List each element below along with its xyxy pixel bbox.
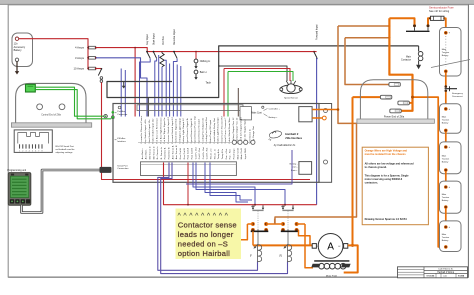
- svg-text:Batt Lt: Batt Lt: [200, 71, 207, 74]
- wire blue coil R drive: [196, 163, 285, 205]
- contactor R moving contact: [282, 209, 293, 211]
- hairball bottom connector: [141, 162, 237, 176]
- svg-text:Forward Switch Input 12: Forward Switch Input 12: [171, 116, 174, 143]
- wire orange contactor interconnects: [247, 223, 253, 225]
- wire orange field left feed: [305, 224, 313, 268]
- lamp Oil/Eng Lt: [195, 51, 197, 53]
- wire blue forward input down to contactors: [316, 59, 318, 205]
- wire red 4A fuse output: [96, 48, 147, 52]
- svg-text:to chassis ground.: to chassis ground.: [365, 166, 388, 169]
- main contactor contacts: [406, 30, 430, 32]
- svg-text:Reverse Switch Input 12: Reverse Switch Input 12: [167, 116, 170, 143]
- contactor R coil terminals: [284, 204, 286, 206]
- svg-text:Serial Comm Transmit T: Serial Comm Transmit T: [224, 117, 227, 144]
- svg-text:Coil F- Ret: Coil F- Ret: [198, 148, 201, 160]
- hairball top connector: [137, 105, 243, 111]
- svg-text:Orange Wires are High Voltage: Orange Wires are High Voltage and: [365, 148, 408, 152]
- svg-text:Pot Box: Pot Box: [162, 35, 165, 45]
- svg-text:Auxiliary Output Two 12: Auxiliary Output Two 12: [236, 117, 239, 143]
- wire orange battery1 to disconnect: [445, 73, 447, 86]
- svg-text:Fan + Out: Fan + Out: [225, 148, 228, 159]
- traction battery 2: [440, 104, 462, 134]
- svg-text:Tachometer Signal Out: Tachometer Signal Out: [175, 118, 178, 143]
- svg-text:Traction: Traction: [442, 236, 450, 239]
- svg-text:Battery: Battery: [442, 160, 450, 163]
- svg-text:Water Pump OK Input: Water Pump OK Input: [209, 120, 212, 144]
- pot box base plate: [11, 123, 91, 127]
- svg-text:Main Cont: Main Cont: [251, 111, 262, 114]
- pot box holes: [37, 104, 43, 110]
- svg-text:Controller +: Controller +: [269, 107, 281, 110]
- contactor F moving contact: [252, 209, 263, 211]
- svg-text:Main: Main: [406, 57, 412, 59]
- svg-text:Battery: Battery: [442, 121, 450, 124]
- svg-text:leads no longer: leads no longer: [178, 230, 234, 239]
- lamp Batt Lt: [194, 70, 198, 74]
- svg-text:1: 1: [19, 150, 20, 152]
- svg-text:Tach: Tach: [206, 81, 212, 85]
- pot box green connector: [26, 84, 36, 92]
- svg-text:Battery Light Output 12: Battery Light Output 12: [182, 118, 185, 144]
- svg-text:Pot Box Wiper Signal In: Pot Box Wiper Signal In: [163, 117, 166, 144]
- svg-text:RS-232 Serial Port: RS-232 Serial Port: [56, 145, 75, 148]
- traction battery 4: [440, 181, 462, 213]
- svg-text:Field Drv A: Field Drv A: [164, 147, 167, 159]
- wire green speed sensor: [228, 72, 293, 82]
- terminal B- of Zilla: [380, 95, 391, 99]
- svg-text:Battery +: Battery +: [269, 116, 279, 119]
- svg-text:Coil R+ Out: Coil R+ Out: [202, 147, 205, 160]
- svg-text:Arm Sense A: Arm Sense A: [171, 145, 174, 159]
- wire purple coil R return: [161, 163, 288, 274]
- wire dark into hairball right: [237, 88, 239, 117]
- svg-text:Battery: Battery: [442, 199, 450, 202]
- wire orange charger line A: [338, 25, 389, 27]
- wire blue coil F drive: [193, 163, 255, 205]
- wire black into hairball: [147, 98, 149, 117]
- svg-text:KSI-Aux: KSI-Aux: [117, 137, 126, 140]
- wire orange B- return from battery string: [413, 97, 446, 247]
- svg-text:Key Input: Key Input: [146, 34, 149, 45]
- svg-text:Coil R- Ret: Coil R- Ret: [206, 147, 209, 159]
- svg-text:Speed Sensor Signal A: Speed Sensor Signal A: [186, 118, 189, 143]
- terminal M1 of Zilla: [390, 109, 401, 113]
- svg-text:B- Sense In: B- Sense In: [161, 146, 163, 159]
- svg-text:option Hairball: option Hairball: [178, 249, 230, 258]
- wire orange motor armature feed: [353, 96, 381, 98]
- svg-text:Coil F+ Out: Coil F+ Out: [194, 147, 197, 159]
- wire orange main cont battery+ stub: [312, 117, 322, 119]
- svg-text:S1.B4: S1.B4: [458, 275, 465, 278]
- svg-text:Battery -: Battery -: [290, 162, 298, 165]
- svg-text:Pot Box High Reference: Pot Box High Reference: [159, 117, 162, 144]
- contactor power studs F: [251, 222, 254, 225]
- RS-232 serial jack: [14, 130, 52, 153]
- wire orange M2 terminal stub: [409, 102, 413, 104]
- svg-text:Oil Engine Light Output: Oil Engine Light Output: [178, 118, 181, 144]
- hairball logo: [269, 131, 281, 138]
- svg-text:Pot Box: Pot Box: [117, 110, 126, 113]
- accessory battery: [12, 33, 33, 67]
- svg-text:07.03.04: 07.03.04: [427, 275, 436, 278]
- svg-text:Fwd Coil A: Fwd Coil A: [187, 147, 190, 159]
- svg-text:F: F: [250, 254, 252, 258]
- Zilla power end housing: [360, 80, 427, 119]
- svg-text:Speed Sensor Ground: Speed Sensor Ground: [198, 119, 201, 144]
- wire orange main cont to charger line: [312, 109, 338, 111]
- contactor R actuator coil: [285, 244, 288, 247]
- wire orange battery2 to battery3: [445, 132, 447, 146]
- svg-text:Connection: Connection: [117, 167, 129, 170]
- programming cable plug: [100, 167, 112, 173]
- svg-text:8: 8: [41, 150, 42, 152]
- svg-text:Programming unit: Programming unit: [7, 169, 26, 172]
- svg-text:Start Input: Start Input: [152, 33, 155, 45]
- svg-text:7: 7: [38, 150, 39, 152]
- svg-text:Temp B In: Temp B In: [222, 148, 224, 159]
- emergency disconnect switch: [445, 85, 448, 88]
- svg-text:4: 4: [29, 150, 30, 152]
- svg-text:Rev Coil B: Rev Coil B: [184, 148, 186, 160]
- svg-text:Aux Batt -: Aux Batt -: [145, 149, 148, 160]
- svg-text:Pot Box Low Reference: Pot Box Low Reference: [155, 117, 158, 143]
- main cont terminal block: [299, 107, 312, 122]
- svg-text:Contactor sense: Contactor sense: [178, 220, 237, 229]
- main cont drive labels: [262, 106, 264, 108]
- svg-text:by Cafe Electric llc.: by Cafe Electric llc.: [274, 143, 296, 147]
- wire purple coil F return: [158, 163, 258, 271]
- pot box pedal body: [16, 83, 86, 122]
- wire purple reverse interlock: [186, 150, 292, 184]
- wire orange controller B+ to contactor: [389, 18, 414, 24]
- window top gray band: [0, 0, 474, 4]
- contactor power studs R: [281, 222, 284, 225]
- wire blue aux inputs: [169, 64, 171, 117]
- svg-text:Motor Field: Motor Field: [326, 274, 338, 277]
- svg-text:2: 2: [22, 150, 23, 152]
- svg-text:Traction: Traction: [442, 118, 450, 121]
- svg-text:Rev Coil A: Rev Coil A: [179, 148, 182, 159]
- svg-text:3 Amps: 3 Amps: [75, 56, 85, 60]
- svg-text:Battery: Battery: [442, 239, 450, 242]
- svg-text:Cooling Fan Ground Ret: Cooling Fan Ground Ret: [205, 117, 208, 144]
- svg-text:scale: scale: [443, 276, 447, 278]
- svg-text:Key Switch Input +12v: Key Switch Input +12v: [144, 118, 147, 143]
- wire green pot box signal B: [35, 90, 111, 119]
- svg-text:Cafe Electric llc: Cafe Electric llc: [438, 268, 454, 271]
- svg-text:Auxiliary Output One 12: Auxiliary Output One 12: [232, 117, 235, 144]
- wire black chassis run to main contactor coil: [107, 46, 419, 98]
- hairball mounting flange: [319, 104, 332, 183]
- battery brain terminal block: [299, 162, 312, 175]
- battery string break mark: [431, 60, 470, 68]
- svg-text:must be isolated from the chas: must be isolated from the chassis: [365, 152, 407, 156]
- svg-text:Disconnect: Disconnect: [452, 95, 463, 98]
- svg-text:Serial Comm Receive RX: Serial Comm Receive RX: [220, 116, 223, 144]
- traction battery 5: [440, 221, 462, 252]
- svg-text:Fwd Coil B: Fwd Coil B: [191, 147, 193, 159]
- motor brush left: [312, 244, 316, 249]
- wire blue contactor sense lead 2: [210, 163, 252, 201]
- svg-text:4 Amps: 4 Amps: [75, 46, 85, 50]
- wire green pot box signal A: [35, 87, 104, 116]
- wire red contactor coil feed: [164, 163, 317, 205]
- svg-text:Forward Input: Forward Input: [316, 24, 319, 40]
- svg-text:Contactor: Contactor: [401, 59, 411, 62]
- svg-text:A: A: [327, 242, 334, 253]
- svg-text:Arm Sense B: Arm Sense B: [175, 145, 178, 159]
- svg-text:6: 6: [35, 150, 36, 152]
- speed sensor: [280, 85, 302, 94]
- title block: [398, 267, 468, 278]
- svg-text:B+ Sense In: B+ Sense In: [157, 146, 159, 160]
- programming cable: [22, 170, 100, 213]
- svg-text:Hairball 2: Hairball 2: [285, 132, 298, 136]
- svg-text:Precharge: Precharge: [233, 148, 235, 159]
- ground arrow from accessory battery: [16, 62, 18, 72]
- svg-text:Hairball 2 Wiring: Hairball 2 Wiring: [437, 271, 455, 274]
- svg-text:A1: A1: [317, 245, 319, 248]
- wire red main accessory bus: [147, 51, 316, 53]
- traction battery 1: [440, 28, 462, 77]
- svg-text:^^^^^^^^^: ^^^^^^^^^: [178, 213, 231, 220]
- programming unit buttons: [10, 199, 14, 203]
- svg-text:contactors.: contactors.: [365, 182, 379, 185]
- wire blue contactor sense lead 1: [205, 163, 248, 203]
- wire blue 3A fuse output: [96, 58, 147, 117]
- svg-text:Serial Port: Serial Port: [117, 164, 128, 167]
- hairball box: [113, 104, 319, 183]
- wire black speed sensor: [219, 66, 287, 81]
- chassis ground arrow: [123, 82, 125, 87]
- svg-text:Fused 12v Supply Outpt: Fused 12v Supply Outpt: [240, 117, 243, 143]
- svg-text:Traction: Traction: [442, 157, 450, 160]
- svg-text:Brake Light Relay Outpt: Brake Light Relay Outpt: [217, 117, 220, 143]
- svg-text:Power End of Zilla: Power End of Zilla: [384, 116, 405, 119]
- Zilla base plate: [357, 119, 435, 123]
- svg-text:Speed Sensor Signal B: Speed Sensor Signal B: [190, 118, 193, 144]
- note box high voltage: [362, 147, 428, 225]
- svg-text:5: 5: [32, 150, 33, 152]
- svg-text:M1 Sense In: M1 Sense In: [149, 145, 151, 159]
- svg-text:Connector: Connector: [117, 113, 127, 116]
- svg-text:Shunt - In: Shunt - In: [213, 148, 216, 159]
- motor armature: [318, 234, 343, 259]
- wire orange armature left brush: [253, 244, 312, 246]
- motor field winding: [314, 260, 349, 262]
- svg-text:Emergency: Emergency: [452, 92, 463, 95]
- hairball pin labels row 1: [140, 115, 246, 143]
- svg-text:Interface: Interface: [117, 140, 126, 143]
- callout yellow note: [176, 209, 242, 260]
- hairball pin labels row 2: [141, 145, 247, 159]
- wire orange charger line B: [345, 37, 389, 39]
- wire orange B+ feed: [389, 18, 412, 111]
- hairball spare holes: [232, 140, 236, 144]
- svg-text:Main Ctr A: Main Ctr A: [236, 148, 239, 159]
- svg-text:Semiconductor Fuse: Semiconductor Fuse: [429, 6, 454, 10]
- contactor F coil terminals: [254, 204, 256, 206]
- svg-text:needed on –S: needed on –S: [178, 240, 228, 249]
- svg-text:Shunt + In: Shunt + In: [210, 148, 213, 160]
- wire orange contactor to fuse: [428, 18, 430, 24]
- wire red keyswitch down to hairball bottom: [102, 82, 311, 179]
- svg-text:Main Ctr B: Main Ctr B: [240, 148, 243, 160]
- contactor R power bar: [281, 230, 299, 232]
- hairball divider line: [138, 141, 252, 143]
- svg-text:10 Amps: 10 Amps: [74, 67, 85, 71]
- wire orange fuse to traction battery 1: [444, 18, 445, 31]
- svg-text:Battery: Battery: [14, 49, 23, 52]
- programming unit screen: [10, 176, 28, 197]
- terminal B+ of Zilla: [389, 83, 400, 87]
- wire orange disconnect to battery2: [445, 92, 447, 108]
- svg-text:M2 Sense In: M2 Sense In: [153, 145, 155, 159]
- svg-text:Ground to Chassis Frame: Ground to Chassis Frame: [140, 115, 143, 143]
- traction battery 3: [440, 142, 462, 174]
- wire red speed sensor: [224, 69, 290, 82]
- svg-text:Speed Sensor: Speed Sensor: [284, 96, 298, 99]
- svg-text:Cable Shield Drain Wire: Cable Shield Drain Wire: [228, 117, 231, 144]
- svg-text:Speed Sensor Power Out: Speed Sensor Power Out: [194, 116, 197, 144]
- svg-text:Cooling Fan Output 12v: Cooling Fan Output 12v: [201, 117, 204, 144]
- main contactor coil: [418, 46, 420, 52]
- wire orange battery3 to battery4: [445, 172, 447, 186]
- wire orange armature right brush to field: [344, 245, 358, 272]
- svg-text:A2: A2: [338, 245, 340, 248]
- svg-text:Input GND: Input GND: [244, 148, 247, 159]
- svg-text:Oil/Eng Lt: Oil/Eng Lt: [200, 60, 211, 63]
- svg-text:Control End of Zilla: Control End of Zilla: [41, 114, 61, 117]
- svg-text:Drawing Version Sparrow 1.0 S3: Drawing Version Sparrow 1.0 S3 B4: [365, 218, 408, 221]
- svg-text:Brake Switch Input 12v: Brake Switch Input 12v: [152, 118, 155, 144]
- wire orange battery4 to battery5: [445, 209, 447, 226]
- wire red 10A fuse output / keyswitch: [96, 68, 102, 70]
- svg-text:Crank Inhibit Relay Out: Crank Inhibit Relay Out: [213, 118, 216, 144]
- svg-text:Start Switch Input 12v: Start Switch Input 12v: [148, 119, 151, 144]
- svg-text:Temp A In: Temp A In: [217, 148, 220, 159]
- contactor F actuator coil: [255, 244, 258, 247]
- programming unit body: [8, 173, 31, 206]
- svg-text:See mfr for sizing: See mfr for sizing: [429, 9, 450, 13]
- contactor F power bar: [251, 230, 269, 232]
- svg-text:3: 3: [25, 150, 26, 152]
- hairball pin labels row 1b: [248, 126, 255, 144]
- svg-text:Field Drv B: Field Drv B: [169, 147, 171, 159]
- svg-text:Traction: Traction: [442, 196, 450, 199]
- svg-text:Reverse Input: Reverse Input: [173, 29, 176, 45]
- terminal M2 of Zilla: [398, 101, 409, 105]
- wire red battery feed: [19, 39, 88, 69]
- svg-text:Fan - Ret: Fan - Ret: [229, 149, 232, 159]
- svg-text:on Hairball used for: on Hairball used for: [56, 148, 75, 151]
- main contactor ground arrow: [418, 61, 420, 65]
- motor brush right: [344, 244, 348, 249]
- svg-text:adjusting settings.: adjusting settings.: [56, 151, 74, 154]
- svg-text:Zilla Interface: Zilla Interface: [285, 136, 302, 140]
- svg-text:Aux Batt +: Aux Batt +: [141, 148, 144, 160]
